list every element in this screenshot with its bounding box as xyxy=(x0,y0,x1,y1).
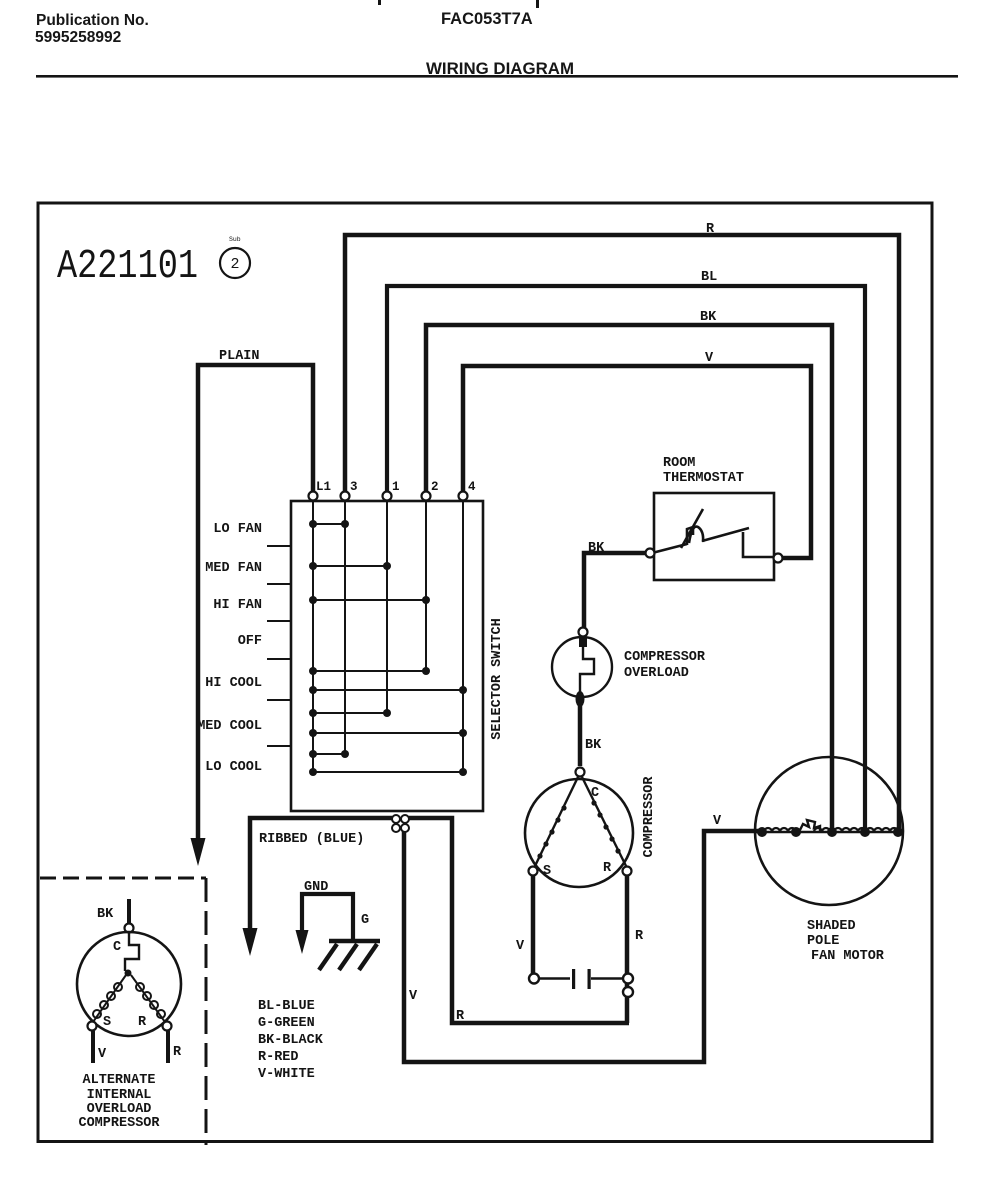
svg-text:FAC053T7A: FAC053T7A xyxy=(441,10,533,28)
svg-text:THERMOSTAT: THERMOSTAT xyxy=(663,471,744,486)
switch position labels xyxy=(197,522,262,775)
svg-text:HI COOL: HI COOL xyxy=(205,676,262,691)
svg-text:1: 1 xyxy=(392,480,400,494)
svg-text:V: V xyxy=(409,989,418,1004)
switch contact junction dots xyxy=(309,520,467,776)
wire PLAIN xyxy=(198,365,313,838)
compressor start winding xyxy=(535,777,578,866)
terminal 4 xyxy=(459,492,468,501)
svg-text:RIBBED (BLUE): RIBBED (BLUE) xyxy=(259,832,364,847)
svg-text:BK: BK xyxy=(97,907,114,922)
wire BK (thermostat to overload) xyxy=(584,553,646,628)
svg-text:COMPRESSOR: COMPRESSOR xyxy=(642,776,657,858)
thermostat left terminal xyxy=(646,549,655,558)
svg-text:MED FAN: MED FAN xyxy=(205,561,262,576)
svg-text:R: R xyxy=(706,222,715,237)
alternate compressor lead BK xyxy=(127,899,131,924)
svg-text:LO FAN: LO FAN xyxy=(213,522,262,537)
capacitor C1 xyxy=(529,974,539,984)
svg-text:BK: BK xyxy=(700,310,717,325)
svg-text:G: G xyxy=(361,913,369,928)
svg-text:3: 3 xyxy=(350,480,358,494)
svg-text:S: S xyxy=(543,864,551,879)
svg-text:R: R xyxy=(456,1009,465,1024)
alt compressor run winding xyxy=(131,975,165,1022)
switch position ticks xyxy=(267,546,291,746)
svg-text:5995258992: 5995258992 xyxy=(35,29,121,46)
alt compressor lead V xyxy=(91,1031,95,1063)
svg-text:S: S xyxy=(103,1015,111,1030)
svg-text:GND: GND xyxy=(304,880,328,895)
svg-text:V: V xyxy=(516,939,525,954)
compressor run winding xyxy=(582,777,626,866)
room thermostat box xyxy=(654,493,774,580)
svg-text:LO COOL: LO COOL xyxy=(205,760,262,775)
terminal L1 xyxy=(309,492,318,501)
compressor terminal C xyxy=(576,768,585,777)
svg-text:Sub: Sub xyxy=(229,236,241,243)
svg-text:V: V xyxy=(713,814,722,829)
wire V (S lead to capacitor) xyxy=(531,876,536,974)
compressor terminal S xyxy=(529,867,538,876)
alt compressor start winding xyxy=(93,975,126,1022)
svg-text:ALTERNATE: ALTERNATE xyxy=(83,1073,156,1088)
alternate compressor terminal C xyxy=(125,924,134,933)
ground GND symbol xyxy=(302,894,353,939)
svg-text:OVERLOAD: OVERLOAD xyxy=(624,666,689,681)
selector switch S1 box xyxy=(291,501,483,811)
compressor overload OL1 xyxy=(552,637,612,697)
wire RIBBED arrowhead xyxy=(243,928,258,956)
wire BL (top) xyxy=(387,286,865,828)
wire R (switch to capacitor) xyxy=(409,818,629,1023)
internal overload protector xyxy=(125,932,139,971)
svg-text:V-WHITE: V-WHITE xyxy=(258,1067,315,1082)
registration mark top xyxy=(378,0,381,5)
alternate compressor enclosure (dashed) xyxy=(40,877,206,880)
terminal 2 xyxy=(422,492,431,501)
compressor M1 xyxy=(525,779,633,887)
fan motor winding xyxy=(755,831,903,834)
wire BK (top) xyxy=(426,325,832,828)
svg-text:V: V xyxy=(705,351,714,366)
svg-text:INTERNAL: INTERNAL xyxy=(87,1088,152,1103)
overload bottom junction xyxy=(576,691,585,707)
svg-text:R: R xyxy=(603,861,612,876)
svg-text:ROOM: ROOM xyxy=(663,456,695,471)
switch output connector terminals xyxy=(392,815,409,832)
svg-text:R: R xyxy=(138,1015,147,1030)
svg-text:PLAIN: PLAIN xyxy=(219,349,260,364)
compressor terminal R xyxy=(623,867,632,876)
svg-text:Publication No.: Publication No. xyxy=(36,12,149,29)
switch contact rows xyxy=(313,524,463,772)
svg-text:BK: BK xyxy=(585,738,602,753)
svg-text:R: R xyxy=(635,929,644,944)
fan motor winding taps xyxy=(757,827,903,837)
wire BK (overload to compressor) xyxy=(578,700,583,766)
svg-text:FAN MOTOR: FAN MOTOR xyxy=(811,949,885,964)
svg-text:SELECTOR SWITCH: SELECTOR SWITCH xyxy=(490,618,505,740)
svg-text:BK: BK xyxy=(588,541,605,556)
wire V (switch to fan motor) xyxy=(404,830,764,1062)
wire PLAIN arrowhead xyxy=(191,838,206,866)
alt compressor terminal S xyxy=(88,1022,97,1031)
svg-text:COMPRESSOR: COMPRESSOR xyxy=(624,650,706,665)
svg-text:L1: L1 xyxy=(316,480,331,494)
svg-text:V: V xyxy=(98,1047,107,1062)
svg-text:C: C xyxy=(113,940,121,955)
svg-text:OVERLOAD: OVERLOAD xyxy=(87,1102,152,1117)
switch internal columns xyxy=(313,498,463,772)
shaded pole fan motor M2 xyxy=(755,757,903,905)
alt compressor lead R xyxy=(166,1031,170,1063)
svg-text:POLE: POLE xyxy=(807,934,839,949)
svg-text:2: 2 xyxy=(230,256,239,273)
svg-text:R-RED: R-RED xyxy=(258,1050,299,1065)
wire R (R lead to capacitor) xyxy=(625,876,630,1023)
svg-text:R: R xyxy=(173,1045,182,1060)
header rule xyxy=(36,75,958,78)
diagram border frame xyxy=(38,203,932,1142)
thermostat switch blade xyxy=(652,509,774,557)
svg-text:SHADED: SHADED xyxy=(807,919,856,934)
alt compressor terminal R xyxy=(163,1022,172,1031)
ground chassis hatching xyxy=(319,941,380,970)
wire V (top, to thermostat) xyxy=(463,366,811,558)
svg-text:BK-BLACK: BK-BLACK xyxy=(258,1033,324,1048)
wire R (top) xyxy=(345,235,899,828)
svg-text:G-GREEN: G-GREEN xyxy=(258,1016,315,1031)
svg-text:BL-BLUE: BL-BLUE xyxy=(258,999,315,1014)
wire RIBBED (BLUE) xyxy=(250,818,392,928)
svg-text:BL: BL xyxy=(701,270,717,285)
svg-text:A221101: A221101 xyxy=(57,244,198,290)
thermostat right terminal xyxy=(774,554,783,563)
svg-text:OFF: OFF xyxy=(238,634,262,649)
svg-text:4: 4 xyxy=(468,480,476,494)
alternate compressor M3 xyxy=(77,932,181,1036)
svg-text:HI FAN: HI FAN xyxy=(213,598,262,613)
svg-text:MED COOL: MED COOL xyxy=(197,719,262,734)
svg-text:COMPRESSOR: COMPRESSOR xyxy=(78,1116,160,1131)
terminal 3 xyxy=(341,492,350,501)
svg-text:2: 2 xyxy=(431,480,439,494)
terminal 1 xyxy=(383,492,392,501)
